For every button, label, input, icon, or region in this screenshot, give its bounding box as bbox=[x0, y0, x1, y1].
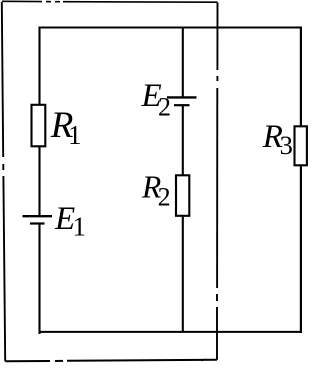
battery E1 short plate bbox=[30, 222, 45, 224]
wire: middle branch between E2 and R2 bbox=[182, 105, 184, 175]
battery E1 long plate bbox=[23, 215, 53, 217]
wire: bottom horizontal bbox=[39, 331, 303, 333]
boundary left edge (dash-dot) bbox=[2, 2, 5, 361]
wire: left branch between R1 and E1 bbox=[38, 146, 40, 215]
resistor R2 bbox=[176, 175, 189, 216]
wire: left branch top segment bbox=[38, 27, 40, 106]
wire: top horizontal bbox=[39, 27, 303, 29]
boundary right edge (dash-dot) bbox=[216, 3, 219, 360]
wire: middle branch bottom segment bbox=[182, 216, 184, 332]
svg-text:3: 3 bbox=[280, 130, 293, 160]
resistor R3 bbox=[295, 126, 307, 165]
svg-text:1: 1 bbox=[73, 212, 87, 242]
svg-text:2: 2 bbox=[158, 93, 171, 122]
wire: left branch bottom segment bbox=[39, 224, 40, 333]
wire: right branch top segment bbox=[300, 27, 302, 127]
battery E2 short plate bbox=[174, 104, 190, 106]
svg-text:1: 1 bbox=[68, 120, 82, 150]
boundary top edge (dash-dot) bbox=[2, 0, 218, 3]
wire: right branch bottom segment bbox=[300, 165, 302, 333]
resistor R1 bbox=[32, 105, 46, 147]
boundary bottom edge (dash-dot) bbox=[5, 359, 217, 361]
battery E2 long plate bbox=[167, 96, 197, 98]
wire: middle branch top segment bbox=[182, 27, 184, 98]
svg-text:2: 2 bbox=[158, 183, 171, 212]
